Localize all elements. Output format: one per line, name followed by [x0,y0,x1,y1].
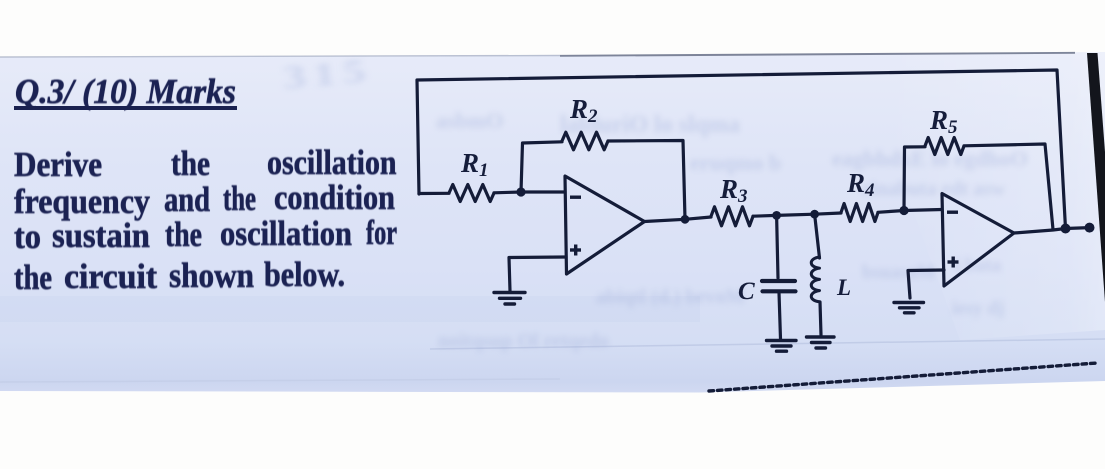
resistor R4 [841,204,878,222]
wire: R5 feedback loop left and top [904,147,925,211]
ground (below inductor L) [807,337,835,348]
svg-text:C: C [738,278,755,305]
label L [836,275,851,300]
label R2 [569,94,598,127]
svg-text:L: L [836,275,851,300]
resistor R1 [449,185,494,202]
wire: R2 right lead down to U1 output node [608,141,685,220]
body text line 3 [14,217,41,257]
title underline [14,106,237,110]
U2 minus pin mark [947,211,958,214]
ground (U2 non-inverting input) [894,303,924,313]
ghost bleed-through text [282,52,375,98]
U1 minus pin mark [570,196,581,199]
svg-text:R5: R5 [929,105,958,138]
node B junction dot [899,206,908,215]
wire: U2 output to terminal [1014,228,1090,233]
wire: U2 non-inverting input to ground [908,270,944,298]
label C [738,278,755,305]
wire: capacitor C bottom lead [779,293,781,340]
resistor R5 [925,138,964,155]
wire: inductor L top lead [815,214,820,258]
wire: inductor L bottom lead [820,302,821,335]
inductor L coil [811,257,819,302]
label R1 [460,148,489,181]
wire: R4 right lead to node B [878,211,904,213]
faint ruled line 1 [430,339,1105,349]
wire: U1 output to junction [645,219,686,221]
label R5 [929,105,958,138]
wire: R2 feedback loop left and top [521,142,562,192]
svg-text:R3: R3 [719,174,748,207]
wire: R5 right lead down to U2 output wire [964,144,1053,230]
faint streak over text area [0,296,700,322]
node: U2 output junction dot [1061,224,1071,234]
svg-text:R4: R4 [846,168,875,201]
op-amp U1 [565,176,645,274]
wire: R1 right lead to node A [494,190,521,194]
wire: R3 to node C, node L, to R4 [753,213,841,216]
black photo band right [1087,53,1105,302]
title: Q.3/ (10) Marks [15,72,236,112]
node: output terminal dot [1085,223,1095,233]
ground (below capacitor C) [767,341,797,352]
resistor R3 [711,207,753,226]
node L junction dot [810,210,819,219]
node: U1 output junction dot [681,215,690,224]
body text line 2 [14,182,150,222]
body text line 4 [14,258,52,298]
body text line 1 [14,145,102,185]
paper [0,52,1105,393]
dashed separator line bottom [709,363,1097,391]
wire: capacitor C top lead [777,215,778,278]
wire: node B to U2 inverting input [904,210,942,211]
node A junction dot [516,187,525,196]
op-amp U2 [942,194,1014,287]
paper top edge shadow line [0,56,560,58]
svg-text:R1: R1 [460,148,489,181]
wire: junction to R3 [685,217,711,219]
wire: R1 left lead [419,192,449,195]
wire: U1 non-inverting input to ground [509,257,566,291]
capacitor C plates [762,281,796,291]
wire: node A to U1 inverting input [521,190,565,193]
resistor R2 [562,132,608,150]
svg-text:R2: R2 [569,94,598,127]
ground (U1 non-inverting input) [494,293,525,305]
node C junction dot [772,211,781,220]
U2 plus pin mark [948,257,959,268]
wire: global feedback top loop (op-amp U2 output to R1 left end) [417,70,1066,229]
faint ruled line 2 [0,379,560,382]
label R4 [846,168,875,201]
U1 plus pin mark [570,245,581,256]
label R3 [719,174,748,207]
